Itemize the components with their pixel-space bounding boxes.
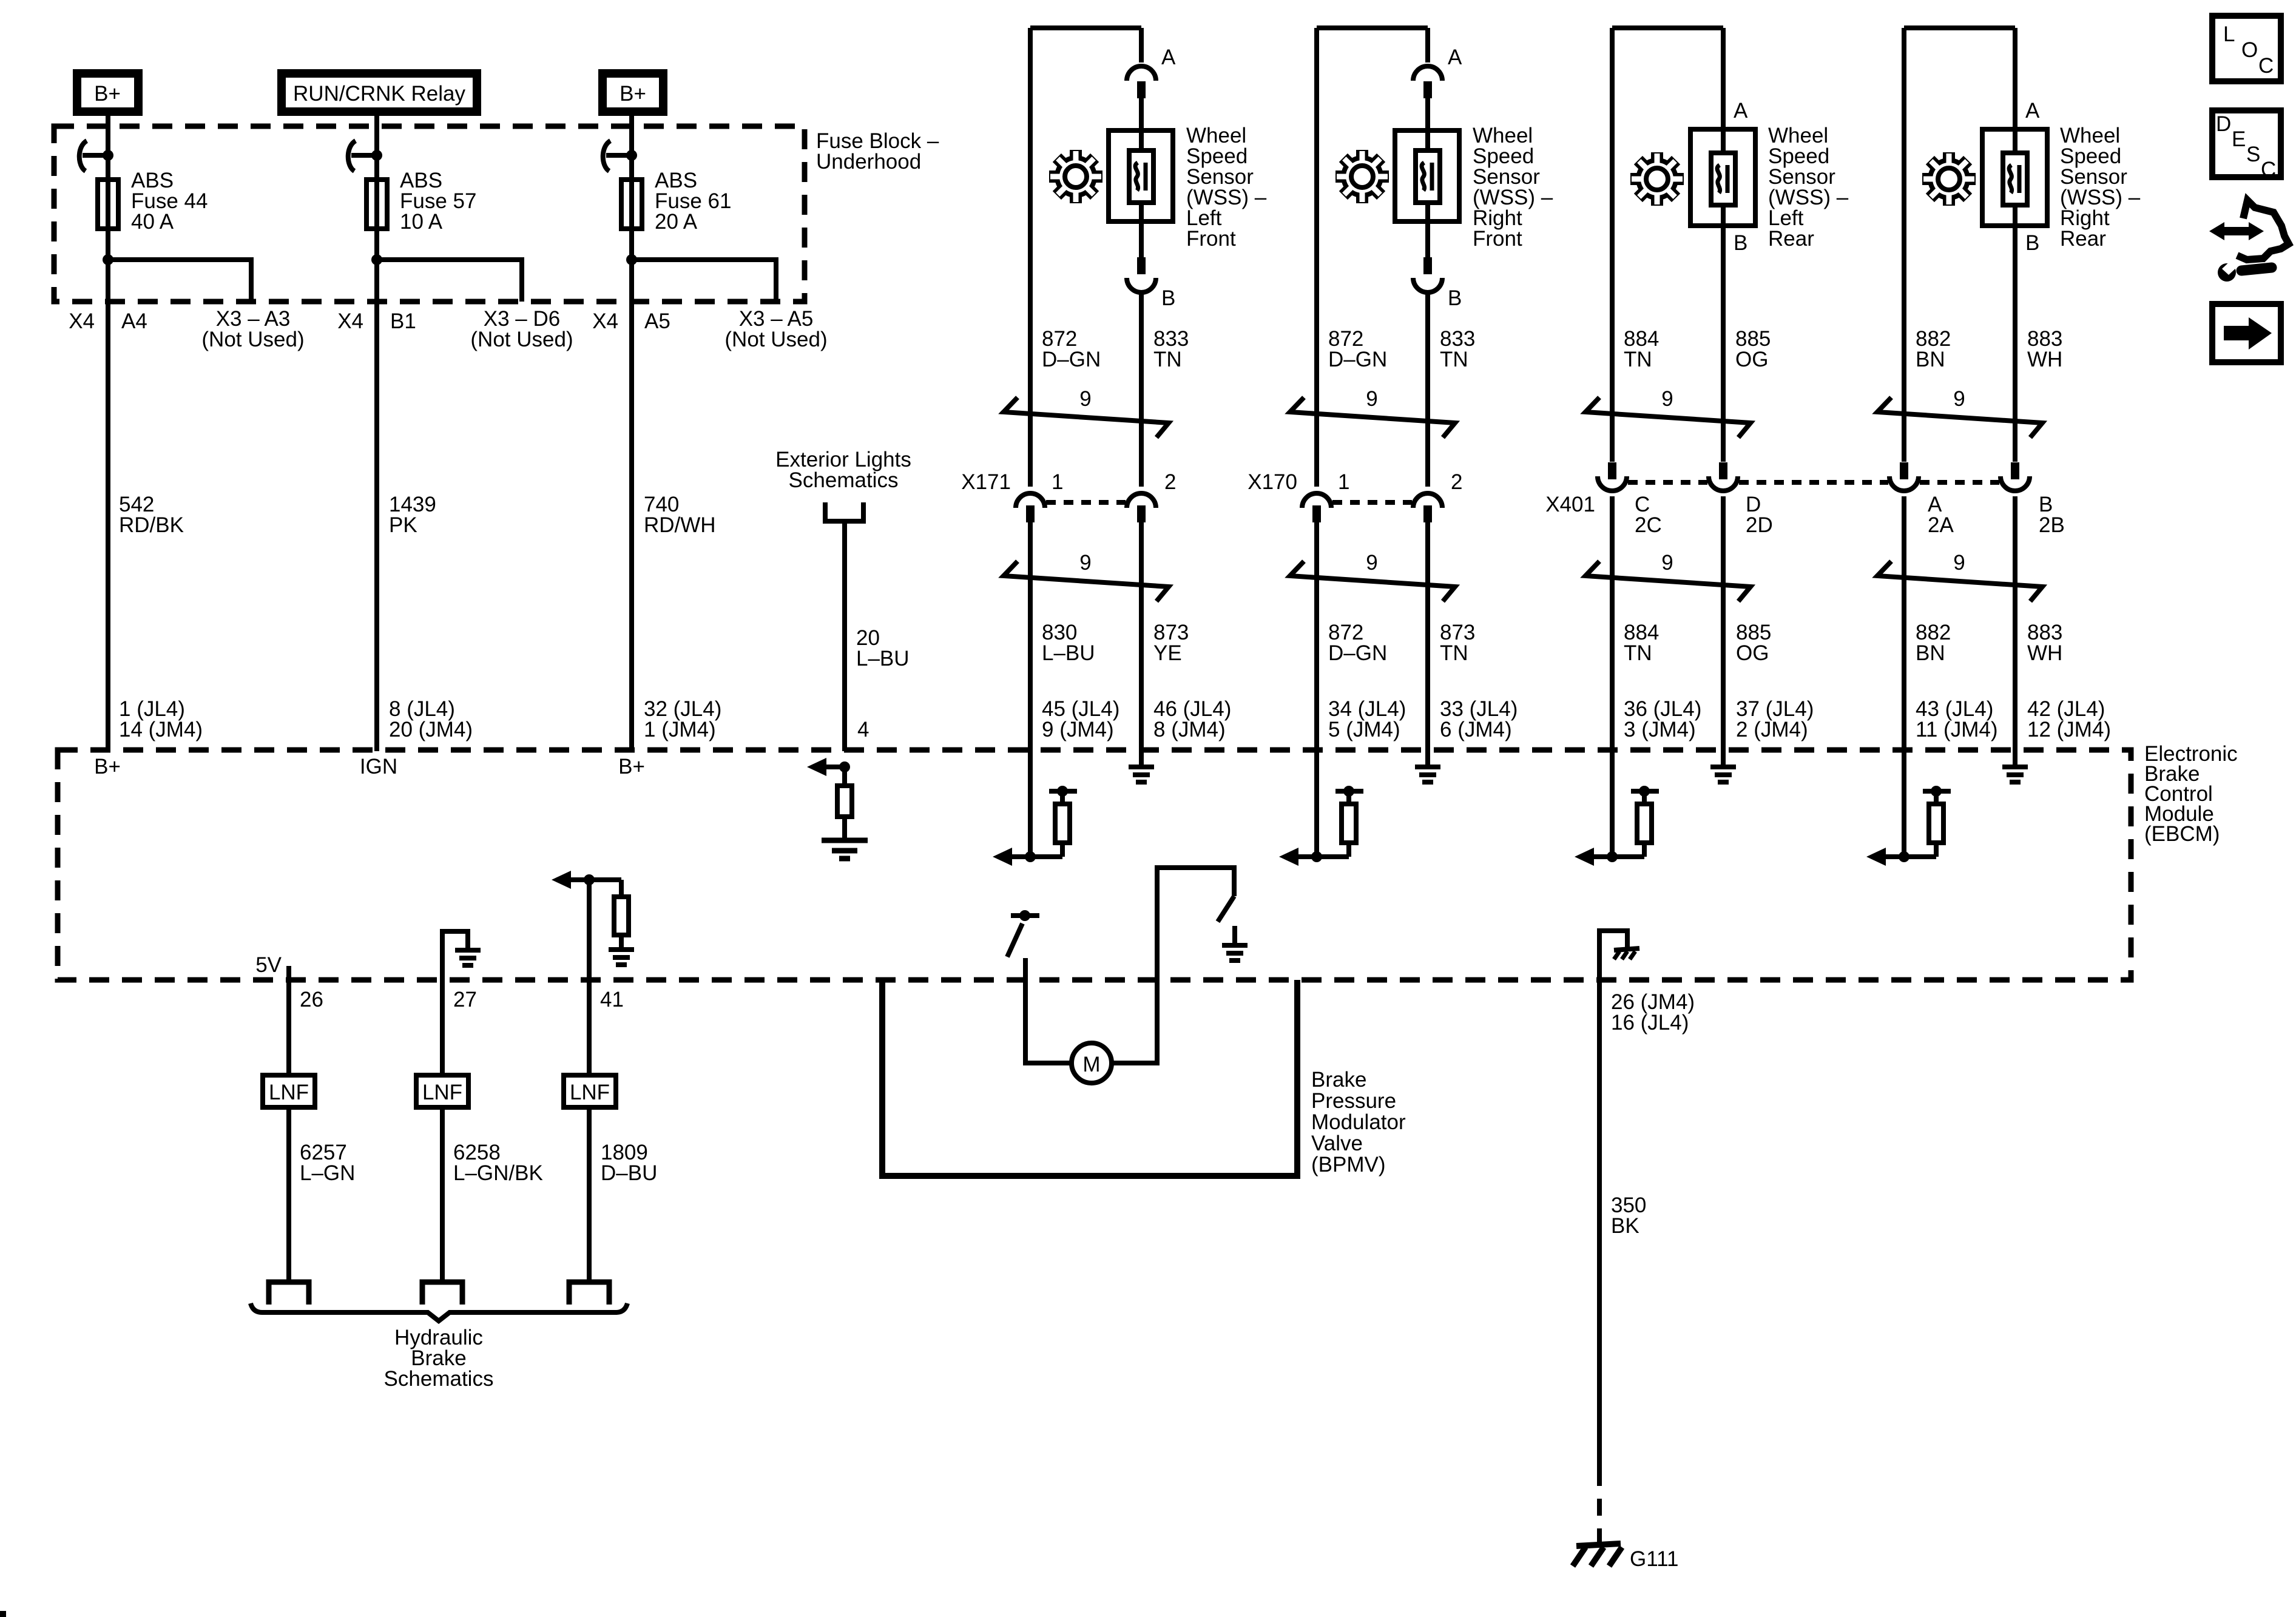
wire out of sensor LR [1721, 205, 1726, 462]
svg-text:Rear: Rear [2060, 227, 2106, 251]
wire out of sensor RF [1425, 203, 1430, 257]
ground G111 symbol [1573, 1544, 1622, 1566]
svg-text:LNF: LNF [422, 1081, 462, 1104]
junction and branch wire to X3-A3 [103, 254, 251, 302]
svg-text:A4: A4 [121, 309, 147, 333]
wire pump motor to ground switch [1112, 868, 1234, 1063]
wire label 882 BN [1916, 327, 1951, 371]
svg-text:6 (JM4): 6 (JM4) [1440, 718, 1512, 741]
fuse element hook 1 [79, 141, 113, 171]
svg-text:10 A: 10 A [400, 210, 443, 234]
svg-text:WH: WH [2027, 348, 2062, 371]
svg-text:9: 9 [1661, 387, 1673, 411]
wire label 20 L-BU [856, 626, 910, 670]
connector terminal B RF [1413, 257, 1442, 292]
inline connector X171 [1016, 493, 1156, 522]
svg-text:27: 27 [453, 988, 477, 1011]
svg-text:D–GN: D–GN [1042, 348, 1101, 371]
wire label 872 D-GN RF [1328, 327, 1387, 371]
svg-text:2 (JM4): 2 (JM4) [1736, 718, 1808, 741]
gear icon RF [1326, 141, 1399, 213]
off-page terminal 26 [269, 1282, 309, 1305]
twisted pair marker 9 upper RR [1877, 387, 2042, 437]
wire 885 OG sensor side LR [1721, 28, 1726, 153]
wire 833 TN sensor side [1139, 28, 1144, 62]
wire from RUN/CRNK relay through fuse 57 down to EBCM pin 8 [374, 116, 379, 751]
off-page terminal 27 [422, 1282, 462, 1305]
svg-text:YE: YE [1153, 641, 1182, 665]
svg-text:(Not Used): (Not Used) [201, 328, 304, 351]
svg-text:E: E [2232, 127, 2246, 151]
svg-text:B+: B+ [620, 82, 646, 106]
Electronic Brake Control Module EBCM dashed box [58, 750, 2131, 980]
svg-text:L–BU: L–BU [1042, 641, 1095, 665]
svg-text:D–BU: D–BU [601, 1161, 657, 1185]
svg-text:1: 1 [1052, 470, 1063, 494]
pin label 26 (JM4) 16 (JL4) [1611, 990, 1695, 1035]
label X3 - A5 (Not Used) [724, 307, 827, 351]
label ABS Fuse 44 40 A [131, 169, 208, 234]
svg-text:B: B [1734, 231, 1747, 255]
svg-text:WH: WH [2027, 641, 2062, 665]
internal chassis ground stub G111 feed [1599, 931, 1639, 980]
wire 20 L-BU to EBCM pin 4 [842, 521, 847, 751]
inline connector X401 pins A and B [1889, 462, 2030, 491]
wire from B+ 2 through fuse 61 down to EBCM pin 32 [629, 116, 634, 751]
svg-text:9: 9 [1953, 551, 1965, 575]
svg-text:9 (JM4): 9 (JM4) [1042, 718, 1114, 741]
forward arrow box [2212, 304, 2281, 362]
svg-text:M: M [1082, 1053, 1100, 1076]
svg-text:Modulator: Modulator [1311, 1110, 1406, 1134]
svg-text:(Not Used): (Not Used) [724, 328, 827, 351]
wheel speed sensor RR box [1982, 129, 2047, 226]
wire 873 TN into EBCM to ground [1415, 522, 1440, 782]
wire switch to pump motor [1025, 958, 1072, 1063]
svg-text:40 A: 40 A [131, 210, 174, 234]
svg-text:2B: 2B [2039, 513, 2065, 537]
wire EBCM pin 27 to hydraulic brake [440, 980, 445, 1282]
pin label 33 (JL4) 6 (JM4) [1440, 697, 1518, 741]
svg-text:X401: X401 [1545, 493, 1595, 516]
ground switch contact to chassis ground [1222, 926, 1248, 960]
svg-text:(Not Used): (Not Used) [470, 328, 573, 351]
pin label 43 (JL4) 11 (JM4) [1916, 697, 1998, 741]
svg-text:TN: TN [1153, 348, 1182, 371]
gear icon LR [1621, 143, 1693, 215]
label ABS Fuse 57 10 A [400, 169, 476, 234]
svg-text:RUN/CRNK Relay: RUN/CRNK Relay [293, 82, 465, 106]
svg-text:LNF: LNF [570, 1081, 610, 1104]
pump motor switch contact [1011, 910, 1039, 921]
svg-text:9: 9 [1079, 551, 1091, 575]
ground switch blade [1218, 896, 1234, 922]
svg-text:3 (JM4): 3 (JM4) [1624, 718, 1696, 741]
wire out of sensor [1139, 203, 1144, 257]
label Brake Pressure Modulator Valve (BPMV) [1311, 1068, 1406, 1176]
svg-text:12 (JM4): 12 (JM4) [2027, 718, 2111, 741]
internal EBCM circuit RF: arrow, pull-up resistor [1279, 786, 1363, 866]
twisted pair marker 9 lower RF [1290, 551, 1455, 601]
svg-text:11 (JM4): 11 (JM4) [1916, 718, 1998, 741]
label Wheel Speed Sensor (WSS) - Right Rear [2060, 124, 2141, 251]
svg-text:B+: B+ [94, 755, 121, 778]
off-page terminal 41 [569, 1282, 609, 1305]
svg-text:A: A [1448, 46, 1462, 69]
twisted pair marker 9 lower LF [1004, 551, 1169, 601]
inline connector X170 [1302, 493, 1442, 522]
brace grouping hydraulic brake wires [251, 1303, 627, 1321]
svg-text:4: 4 [857, 718, 869, 741]
svg-text:BN: BN [1916, 348, 1945, 371]
svg-text:B+: B+ [94, 82, 121, 106]
BPMV outline [882, 980, 1297, 1176]
wire label 884 TN lower [1624, 621, 1659, 665]
svg-text:X4: X4 [337, 309, 363, 333]
twisted pair marker 9 upper RF [1290, 387, 1455, 437]
pin label 1 (JL4) 14 (JM4) [119, 697, 203, 741]
fuse element hook 2 [348, 141, 382, 171]
wire loop top right rear [1904, 25, 2015, 30]
internal circuit pin 41: arrow, resistor to ground [552, 871, 634, 965]
svg-text:L–BU: L–BU [856, 647, 910, 670]
wire label 885 OG lower [1736, 621, 1771, 665]
svg-text:Schematics: Schematics [384, 1367, 494, 1391]
svg-text:Brake: Brake [1311, 1068, 1366, 1092]
svg-text:BK: BK [1611, 1214, 1639, 1238]
junction and branch wire to X3-D6 [371, 254, 522, 302]
label Wheel Speed Sensor (WSS) - Right Front [1473, 124, 1553, 251]
svg-text:IGN: IGN [360, 755, 397, 778]
off-page connector bracket [825, 502, 863, 521]
inline connector X401 pins C and D [1598, 462, 1888, 491]
connector terminal B [1127, 257, 1156, 292]
dashed wire segment to G111 [1597, 1469, 1602, 1542]
svg-text:2C: 2C [1635, 513, 1662, 537]
svg-text:LNF: LNF [269, 1081, 309, 1104]
pin label B 2B [2039, 493, 2065, 537]
pin label 45 (JL4) 9 (JM4) [1042, 697, 1119, 741]
pin label 8 (JL4) 20 (JM4) [389, 697, 473, 741]
svg-text:RD/BK: RD/BK [119, 513, 184, 537]
wire 350 BK to G111 [1597, 980, 1602, 1469]
svg-text:A: A [1161, 46, 1176, 69]
svg-text:5 (JM4): 5 (JM4) [1328, 718, 1400, 741]
svg-text:2: 2 [1451, 470, 1462, 494]
wire 872 D-GN left front (circuit 830 L-BU below X171) [1028, 28, 1033, 857]
svg-text:Underhood: Underhood [816, 150, 921, 174]
svg-text:D–GN: D–GN [1328, 641, 1387, 665]
wire 882 BN right rear [1902, 28, 1906, 857]
wire 833 TN sensor side RF [1425, 28, 1430, 62]
svg-text:S: S [2246, 143, 2260, 166]
twisted pair marker 9 lower LR [1585, 551, 1751, 601]
pump motor M [1072, 1043, 1112, 1083]
wire label 873 TN lower RF [1440, 621, 1475, 665]
wire label 6258 L-GN/BK [453, 1141, 543, 1185]
wire label 740 RD/WH [644, 493, 716, 537]
svg-text:16 (JL4): 16 (JL4) [1611, 1011, 1689, 1035]
svg-text:D–GN: D–GN [1328, 348, 1387, 371]
wire 833 TN down to X171 [1139, 292, 1144, 487]
svg-text:L–GN/BK: L–GN/BK [453, 1161, 543, 1185]
wire label 872 D-GN [1042, 327, 1101, 371]
svg-text:2A: 2A [1928, 513, 1954, 537]
wire label 883 WH [2027, 327, 2062, 371]
sensor element LF [1129, 150, 1153, 203]
wire EBCM pin 26 to hydraulic brake [286, 966, 291, 1282]
connector LNF 3 [564, 1075, 616, 1107]
label X4 A4 [69, 309, 147, 333]
svg-text:9: 9 [1366, 551, 1377, 575]
svg-text:OG: OG [1735, 348, 1768, 371]
pump motor switch blade [1007, 923, 1022, 957]
svg-text:L: L [2223, 22, 2235, 46]
internal EBCM circuit LR: arrow, pull-up resistor [1575, 786, 1659, 866]
svg-text:Front: Front [1186, 227, 1236, 251]
pin label 46 (JL4) 8 (JM4) [1153, 697, 1231, 741]
svg-text:B: B [1161, 286, 1175, 310]
label Hydraulic Brake Schematics [384, 1326, 494, 1391]
wheel speed sensor LR box [1690, 129, 1755, 226]
wire 884 TN left rear [1610, 28, 1615, 857]
svg-text:9: 9 [1953, 387, 1965, 411]
wire from B+ 1 through fuse 44 down to EBCM pin 1 [106, 116, 110, 751]
twisted pair marker 9 lower RR [1877, 551, 2042, 601]
internal ground stub pin 27 [442, 931, 481, 980]
svg-text:9: 9 [1366, 387, 1377, 411]
pin label A 2A [1928, 493, 1954, 537]
wire loop top left rear [1612, 25, 1723, 30]
svg-text:TN: TN [1440, 641, 1468, 665]
wire 833 TN down to X170 [1425, 292, 1430, 487]
svg-text:OG: OG [1736, 641, 1769, 665]
svg-text:A: A [1734, 99, 1748, 123]
pin label 37 (JL4) 2 (JM4) [1736, 697, 1814, 741]
sensor element LR [1711, 153, 1735, 205]
wire label 872 D-GN lower RF [1328, 621, 1387, 665]
svg-text:(BPMV): (BPMV) [1311, 1153, 1386, 1176]
wire label 830 L-BU [1042, 621, 1095, 665]
svg-text:G111: G111 [1630, 1547, 1678, 1571]
svg-text:20 A: 20 A [655, 210, 698, 234]
fuse F44 body [98, 180, 118, 229]
twisted pair marker 9 upper LR [1585, 387, 1751, 437]
svg-text:B+: B+ [618, 755, 645, 778]
svg-text:PK: PK [389, 513, 417, 537]
wire label 882 BN lower [1916, 621, 1951, 665]
svg-text:RD/WH: RD/WH [644, 513, 716, 537]
pin label 36 (JL4) 3 (JM4) [1624, 697, 1701, 741]
svg-text:C: C [2258, 54, 2274, 78]
svg-text:14 (JM4): 14 (JM4) [119, 718, 203, 741]
pin label 32 (JL4) 1 (JM4) [644, 697, 721, 741]
pin label 42 (JL4) 12 (JM4) [2027, 697, 2111, 741]
svg-text:41: 41 [600, 988, 624, 1011]
DESC hyperlink box [2212, 110, 2281, 181]
wire label 873 YE [1153, 621, 1189, 665]
svg-text:X170: X170 [1248, 470, 1297, 494]
junction and branch wire to X3-A5 [626, 254, 776, 302]
gear icon RR [1913, 143, 1985, 215]
RUN/CRNK Relay box [282, 73, 477, 112]
wire label 833 TN [1153, 327, 1189, 371]
pin label 34 (JL4) 5 (JM4) [1328, 697, 1406, 741]
svg-text:8 (JM4): 8 (JM4) [1153, 718, 1226, 741]
svg-text:9: 9 [1661, 551, 1673, 575]
pin label D 2D [1746, 493, 1773, 537]
svg-text:L–GN: L–GN [300, 1161, 355, 1185]
label Wheel Speed Sensor (WSS) - Left Front [1186, 124, 1267, 251]
label X4 A5 [592, 309, 670, 333]
wire 872 D-GN right front [1314, 28, 1319, 857]
svg-text:TN: TN [1440, 348, 1468, 371]
svg-text:1 (JM4): 1 (JM4) [644, 718, 716, 741]
wire into sensor [1139, 98, 1144, 150]
wire label 6257 L-GN [300, 1141, 355, 1185]
connector LNF 2 [416, 1075, 468, 1107]
label Fuse Block - Underhood [816, 129, 939, 174]
internal EBCM circuit RR: arrow, pull-up resistor [1866, 786, 1951, 866]
connector terminal A [1127, 66, 1156, 98]
label X3 - D6 (Not Used) [470, 307, 573, 351]
svg-text:BN: BN [1916, 641, 1945, 665]
label Exterior Lights Schematics [775, 448, 911, 492]
sensor element RR [2003, 153, 2027, 205]
svg-text:TN: TN [1624, 348, 1652, 371]
B+ terminal box 2 [603, 73, 663, 112]
svg-text:B1: B1 [390, 309, 416, 333]
label ABS Fuse 61 20 A [655, 169, 731, 234]
internal circuit for pin 4: arrow, junction, resistor to ground [807, 758, 868, 859]
svg-text:20 (JM4): 20 (JM4) [389, 718, 473, 741]
svg-text:2D: 2D [1746, 513, 1773, 537]
wire label 350 BK [1611, 1193, 1646, 1238]
wire label 1809 D-BU [601, 1141, 657, 1185]
wire label 883 WH lower [2027, 621, 2062, 665]
wheel speed sensor RF box [1395, 130, 1459, 221]
connector LNF 1 [263, 1075, 315, 1107]
wheel speed sensor LF box [1109, 130, 1173, 221]
wire 883 WH sensor side RR [2013, 28, 2017, 153]
svg-text:X4: X4 [69, 309, 95, 333]
wire label 885 OG [1735, 327, 1771, 371]
svg-text:Valve: Valve [1311, 1132, 1363, 1155]
wire label 1439 PK [389, 493, 436, 537]
wire 873 YE into EBCM to ground [1129, 522, 1154, 782]
label X4 B1 [337, 309, 416, 333]
svg-text:Pressure: Pressure [1311, 1089, 1396, 1113]
svg-text:B: B [2025, 231, 2039, 255]
svg-text:X171: X171 [961, 470, 1011, 494]
wire label 542 RD/BK [119, 493, 184, 537]
gear icon LF [1040, 141, 1112, 213]
wire loop top right front [1317, 25, 1428, 30]
page artifact dot [0, 1611, 6, 1617]
svg-text:A: A [2025, 99, 2040, 123]
svg-text:(EBCM): (EBCM) [2144, 822, 2220, 846]
label Wheel Speed Sensor (WSS) - Left Rear [1768, 124, 1849, 251]
service icon component outline [2237, 200, 2289, 260]
svg-text:2: 2 [1164, 470, 1176, 494]
svg-text:9: 9 [1079, 387, 1091, 411]
fuse F61 body [621, 180, 642, 229]
service icon wrench [2218, 260, 2272, 282]
internal EBCM circuit LF: arrow, pull-up resistor [993, 786, 1077, 866]
svg-text:1: 1 [1338, 470, 1349, 494]
wire label 833 TN RF [1440, 327, 1475, 371]
connector terminal A RF [1413, 66, 1442, 98]
svg-text:A5: A5 [644, 309, 670, 333]
svg-text:X4: X4 [592, 309, 618, 333]
wire loop top left front [1030, 25, 1141, 30]
fuse element hook 3 [603, 141, 637, 171]
label Electronic Brake Control Module (EBCM) [2144, 742, 2238, 846]
svg-text:C: C [2261, 158, 2276, 181]
svg-text:Rear: Rear [1768, 227, 1814, 251]
wire label 884 TN [1624, 327, 1659, 371]
fuse F57 body [366, 180, 387, 229]
svg-text:TN: TN [1624, 641, 1652, 665]
wire 883 WH into EBCM to ground [2002, 496, 2028, 782]
LOC hyperlink box [2212, 16, 2281, 81]
svg-text:D: D [2216, 112, 2231, 136]
wire 885 OG into EBCM to ground [1710, 496, 1736, 782]
svg-text:Front: Front [1473, 227, 1522, 251]
svg-text:B: B [1448, 286, 1462, 310]
svg-text:5V: 5V [255, 953, 282, 977]
svg-text:O: O [2241, 38, 2258, 62]
svg-text:26: 26 [300, 988, 323, 1011]
pin label C 2C [1635, 493, 1662, 537]
service icon double arrow [2209, 222, 2264, 240]
label X3 - A3 (Not Used) [201, 307, 304, 351]
wire into sensor RF [1425, 98, 1430, 150]
wire EBCM pin 41 to hydraulic brake [587, 880, 592, 1282]
sensor element RF [1416, 150, 1440, 203]
svg-text:Schematics: Schematics [789, 468, 899, 492]
twisted pair marker 9 upper LF [1004, 387, 1169, 437]
Fuse Block - Underhood dashed box [54, 126, 805, 302]
wire out of sensor RR [2013, 205, 2017, 462]
B+ terminal box 1 [77, 73, 138, 112]
